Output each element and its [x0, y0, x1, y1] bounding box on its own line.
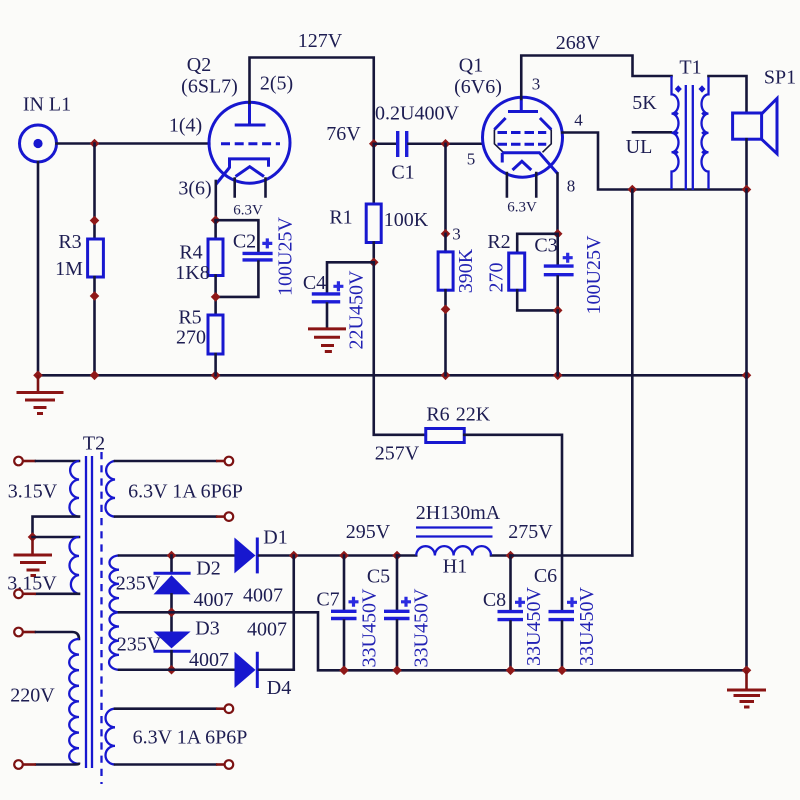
Q1 plate: [508, 99, 538, 112]
wire Q1 plate 268V to T1 primary top: [521, 32, 671, 99]
T2 winding 6.3V upper: [105, 461, 242, 517]
wire CT to lower 3.15V winding: [33, 536, 80, 539]
svg-text:D3: D3: [195, 618, 219, 640]
node speaker return: [742, 185, 752, 195]
diode D2 4007: [154, 558, 234, 612]
T2 terminal 6.3V upper bottom: [225, 512, 234, 521]
svg-text:33U450V: 33U450V: [411, 588, 433, 667]
T2 terminal mid-left: [14, 590, 23, 599]
node R2/C3 bottom: [553, 306, 563, 316]
svg-text:R5: R5: [178, 307, 201, 329]
svg-text:295V: 295V: [346, 521, 391, 543]
svg-text:4: 4: [574, 111, 583, 130]
wire Q2 plate to 127V node: [250, 30, 374, 144]
pin label 8: [567, 177, 576, 196]
svg-text:6.3V: 6.3V: [507, 200, 537, 216]
T2 terminal top-left: [14, 457, 23, 466]
wire 6.3V lower bottom: [115, 763, 224, 766]
ground (C4): [308, 329, 346, 352]
node AC top / D2: [167, 551, 177, 561]
capacitor C4 22U450V: [303, 270, 368, 349]
wire node A to Q2 grid: [95, 142, 210, 145]
node A: [90, 139, 100, 149]
Q1 heater pins: [507, 173, 537, 216]
svg-text:C3: C3: [534, 235, 557, 257]
svg-text:C5: C5: [367, 566, 390, 588]
svg-text:Q2: Q2: [187, 54, 211, 76]
svg-text:8: 8: [567, 177, 576, 196]
svg-text:IN L1: IN L1: [23, 94, 71, 116]
diode D4 4007: [189, 649, 291, 699]
svg-text:4007: 4007: [189, 649, 229, 671]
svg-text:R2: R2: [487, 231, 510, 253]
node plus rail left: [289, 551, 299, 561]
ground rail (amp): [33, 371, 751, 381]
wire D1 cathode to B+ rail: [259, 554, 397, 557]
op-amp U1 tube Q2 (6SL7) envelope: [181, 54, 290, 183]
capacitor C1 0.2U400V: [374, 103, 483, 184]
ground (T2 heater CT): [14, 537, 53, 576]
svg-text:0.2U400V: 0.2U400V: [375, 103, 459, 125]
resistor R4 1K8: [175, 220, 223, 315]
wire Q1 screen pin4: [562, 133, 746, 190]
wire lower 3.15V to terminal: [24, 592, 80, 595]
wire AC top rail: [119, 554, 234, 557]
T2 winding 3.15V lower: [7, 537, 79, 595]
node T1 bottom left: [628, 185, 638, 195]
diode D3 4007: [154, 618, 288, 652]
Q2 plate: [235, 102, 266, 125]
svg-text:100U25V: 100U25V: [583, 235, 605, 314]
svg-text:33U450V: 33U450V: [359, 588, 381, 667]
node 127V junction: [369, 139, 379, 149]
T2 terminal 6.3V upper top: [225, 457, 234, 466]
Q2 heater pins: [233, 179, 265, 219]
wire D2 column top: [170, 556, 173, 572]
wire plus vertical down to D4: [292, 556, 295, 670]
svg-text:2(5): 2(5): [260, 73, 293, 95]
svg-text:Q1: Q1: [459, 55, 483, 77]
T2 winding 220V: [10, 639, 79, 764]
node R1 bottom 257V: [369, 258, 379, 268]
node Q1 grid: [441, 139, 451, 149]
Q2 grid (dashed): [221, 142, 280, 145]
svg-text:22K: 22K: [456, 404, 491, 426]
input jack IN L1: [20, 94, 72, 163]
wire center tap to minus rail (jog): [119, 612, 747, 670]
svg-text:76V: 76V: [326, 123, 361, 145]
node center tap: [167, 608, 177, 618]
svg-text:SP1: SP1: [764, 67, 796, 89]
svg-text:4007: 4007: [243, 585, 283, 607]
capacitor C6 33U450V: [534, 565, 598, 670]
capacitor C7 33U450V: [316, 556, 380, 671]
svg-text:C8: C8: [483, 589, 506, 611]
Q2 cathode: [216, 159, 269, 185]
wire C3 node to ground rail: [556, 310, 559, 375]
wire 6.3V lower top: [115, 707, 224, 710]
transformer T1: [626, 57, 702, 159]
UL tap stub: [633, 131, 671, 134]
svg-text:R1: R1: [329, 207, 352, 229]
svg-text:4007: 4007: [194, 589, 234, 611]
capacitor C3 100U25V: [534, 234, 605, 315]
svg-text:3.15V: 3.15V: [8, 481, 58, 503]
svg-text:220V: 220V: [10, 685, 55, 707]
svg-text:33U450V: 33U450V: [523, 587, 545, 666]
svg-text:6.3V: 6.3V: [233, 203, 263, 219]
T2 winding HV 235V lower: [109, 612, 162, 669]
svg-text:1(4): 1(4): [169, 115, 202, 137]
wire R6 to C6 vertical: [464, 435, 562, 611]
node C5 bottom: [392, 666, 402, 676]
svg-text:UL: UL: [626, 136, 653, 158]
wire B+ vertical to 275V rail: [631, 190, 634, 556]
wire jack down to ground rail: [37, 162, 40, 375]
svg-text:C6: C6: [534, 565, 557, 587]
node 3 top of 390K: [441, 225, 461, 244]
Q1 cathode: [502, 153, 557, 174]
svg-text:3: 3: [532, 75, 541, 94]
resistor 390K: [438, 234, 477, 375]
wire 275V rail: [511, 554, 633, 557]
transformer T2: [83, 433, 105, 455]
T2 terminal 6.3V lower top: [225, 704, 234, 713]
capacitor C2 100U25V: [216, 217, 297, 297]
svg-text:R3: R3: [58, 231, 81, 253]
wire R3 to ground rail: [90, 277, 100, 375]
node CT ground: [28, 532, 38, 542]
wire Q1 cathode pin8 down: [556, 174, 559, 234]
svg-text:4007: 4007: [247, 619, 287, 641]
svg-text:390K: 390K: [455, 248, 477, 293]
node AC bottom / D3: [167, 665, 177, 675]
svg-text:5: 5: [467, 150, 476, 169]
svg-text:6.3V 1A 6P6P: 6.3V 1A 6P6P: [133, 727, 248, 749]
svg-text:235V: 235V: [116, 573, 161, 595]
wire 220V top lead: [24, 632, 80, 639]
wire grid node down: [444, 144, 447, 234]
node R4/C2 bottom: [211, 292, 221, 302]
T1 core: [686, 85, 693, 190]
wire right vertical to ground: [745, 190, 748, 671]
Q1 screen grid (dashed): [498, 131, 547, 134]
T2 terminal 220V top: [14, 628, 23, 637]
node C5 top / 295V: [346, 521, 402, 560]
svg-text:270: 270: [176, 327, 206, 349]
resistor R2 270: [486, 231, 558, 310]
transistor Q1 tube (6V6) envelope: [454, 55, 562, 178]
Q1 control grid (dashed): [498, 143, 547, 146]
svg-text:100K: 100K: [384, 209, 429, 231]
svg-text:257V: 257V: [375, 443, 420, 465]
node C8 bottom: [506, 666, 516, 676]
node H1 output 275V: [506, 521, 554, 560]
wire 257V run to R6: [374, 262, 426, 464]
wire D3 to AC bottom rail: [170, 651, 173, 670]
Q1 heater: [513, 161, 532, 170]
T2 terminal 220V bottom: [14, 760, 23, 769]
wire D4 cathode to plus vertical: [259, 668, 294, 671]
svg-text:1K8: 1K8: [175, 262, 209, 284]
Q2 heater: [236, 167, 265, 177]
svg-text:268V: 268V: [556, 32, 601, 54]
wire D2 to center node: [170, 594, 173, 631]
wire T1 secondary top to speaker: [709, 76, 747, 113]
svg-text:C1: C1: [391, 162, 414, 184]
svg-text:T1: T1: [679, 57, 701, 79]
node C7 bottom: [339, 666, 349, 676]
resistor R1 100K: [326, 123, 429, 262]
wire 6.3V upper top: [115, 460, 224, 463]
diode D1 4007: [234, 527, 287, 607]
wire AC bottom rail: [119, 668, 234, 671]
svg-text:C7: C7: [316, 589, 339, 611]
svg-text:H1: H1: [443, 556, 467, 578]
T1 primary winding: [671, 76, 678, 189]
wire Q2 cathode down: [215, 181, 218, 220]
svg-text:275V: 275V: [508, 521, 553, 543]
T2 winding HV 235V upper: [110, 556, 161, 613]
T1 polarity dot left: [675, 85, 682, 92]
svg-text:270: 270: [486, 263, 508, 293]
resistor R6 22K: [426, 404, 491, 443]
Q1 beam plates: [494, 118, 551, 152]
svg-text:3: 3: [452, 225, 461, 244]
wire C4 tap: [327, 262, 374, 292]
node minus rail right: [742, 666, 752, 676]
pin label 3(6): [178, 178, 211, 200]
svg-text:R4: R4: [179, 242, 202, 264]
pin label 4: [574, 111, 583, 130]
capacitor C5 33U450V: [367, 556, 433, 671]
svg-text:22U450V: 22U450V: [346, 270, 368, 349]
svg-text:5K: 5K: [632, 92, 657, 114]
wire 6.3V upper bottom: [115, 515, 224, 518]
wire jack to node A: [57, 142, 95, 145]
resistor R5 270: [176, 307, 223, 376]
svg-text:(6V6): (6V6): [454, 76, 502, 98]
wire 220V bottom lead: [24, 762, 80, 765]
T2 winding 3.15V upper: [8, 461, 79, 517]
node C7 top: [339, 551, 349, 561]
svg-text:3(6): 3(6): [178, 178, 211, 200]
ground (amp left): [17, 375, 64, 413]
svg-text:T2: T2: [83, 433, 105, 455]
T2 winding 6.3V lower: [105, 709, 247, 765]
pin label 2(5): [260, 73, 293, 95]
wire 3.15V winding bottom to CT ground: [33, 517, 80, 537]
resistor R3 1M: [55, 231, 103, 280]
T2 terminal 6.3V lower bottom: [225, 760, 234, 769]
wire node A down to R3: [90, 144, 100, 240]
node Q2 cathode: [211, 215, 221, 225]
capacitor C8 33U450V: [483, 556, 545, 671]
ground (PSU right): [727, 670, 766, 707]
inductor H1 choke 2H130mA: [397, 502, 511, 578]
svg-text:2H130mA: 2H130mA: [416, 502, 501, 524]
svg-text:D2: D2: [196, 558, 220, 580]
svg-text:D4: D4: [267, 677, 291, 699]
T1 secondary winding: [701, 76, 708, 189]
svg-text:(6SL7): (6SL7): [181, 76, 238, 98]
svg-text:1M: 1M: [55, 258, 83, 280]
T1 polarity dot right: [699, 85, 706, 92]
svg-text:127V: 127V: [298, 30, 343, 52]
svg-text:6.3V 1A 6P6P: 6.3V 1A 6P6P: [128, 481, 243, 503]
node R2/C3 top: [553, 229, 563, 239]
T2 core: [86, 452, 102, 784]
pin label 1(4): [169, 115, 202, 137]
pin label 3: [532, 75, 541, 94]
pin label 5: [467, 150, 476, 169]
svg-text:C2: C2: [233, 231, 256, 253]
svg-text:R6: R6: [426, 404, 449, 426]
svg-text:D1: D1: [263, 527, 287, 549]
node C6 bottom: [557, 666, 567, 676]
speaker SP1: [733, 67, 797, 154]
svg-text:100U25V: 100U25V: [275, 217, 297, 296]
wire speaker down to return: [745, 139, 748, 189]
svg-text:C4: C4: [303, 272, 326, 294]
wire terminal to 3.15V winding: [24, 460, 80, 463]
svg-text:33U450V: 33U450V: [576, 587, 598, 666]
